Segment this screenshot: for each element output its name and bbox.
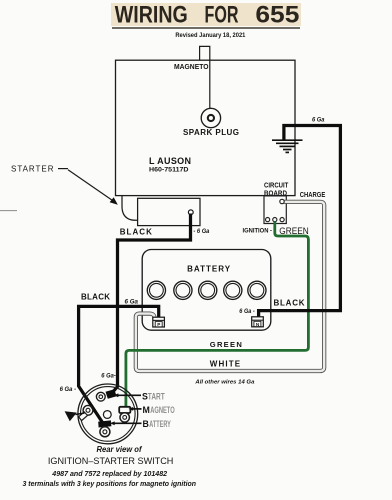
svg-text:IGNITION–STARTER SWITCH: IGNITION–STARTER SWITCH [48,455,173,466]
svg-text:All other wires 14 Ga: All other wires 14 Ga [194,379,255,385]
switch key shaft hole [103,411,111,419]
svg-text:TART: TART [148,391,165,401]
ignition switch inner ring [81,387,136,442]
left margin tick [0,210,17,212]
battery N terminal [252,317,264,327]
svg-text:BLACK: BLACK [120,227,152,236]
svg-text:4987 and 7572 replaced by 1014: 4987 and 7572 replaced by 101482 [51,469,167,478]
circuit board lower terminals [266,218,270,222]
svg-text:6 Ga: 6 Ga [125,299,139,306]
svg-text:6 Ga: 6 Ga [312,116,325,123]
title text WIRING FOR 655 [115,1,300,28]
svg-text:Rear view of: Rear view of [97,445,143,454]
svg-text:WHITE: WHITE [210,359,241,368]
ignition switch outer ring [78,384,138,444]
switch START terminal [96,389,116,401]
svg-text:BLACK: BLACK [274,299,305,308]
spark plug symbol [201,108,220,127]
switch MAGNETO terminal [119,407,130,422]
svg-text:IGNITION -: IGNITION - [243,227,273,234]
starter pointer line [58,168,68,170]
BATTERY label pointer [113,422,142,424]
svg-text:6 Ga -: 6 Ga - [60,386,77,393]
title highlight band [111,3,301,26]
circuit board charge terminal [280,199,284,203]
green ignition wire [126,222,309,409]
magneto terminal rect on box top [200,46,210,60]
MAGNETO label pointer [132,408,142,410]
svg-text:CHARGE: CHARGE [300,192,326,199]
svg-text:M: M [143,405,150,415]
svg-text:- 6 Ga: - 6 Ga [193,228,210,235]
engine box (LAUSON) [116,60,296,195]
wire black 6Ga: engine ground to battery N [259,126,341,319]
ground symbol (engine, top right) [272,140,303,152]
svg-text:STARTER: STARTER [11,164,54,173]
starter body [138,198,200,225]
battery cell caps [147,281,266,299]
svg-text:6 Ga-: 6 Ga- [101,373,116,380]
title underline [112,27,300,29]
switch mounting tab [83,405,93,415]
battery P terminal [153,317,165,327]
spark plug wire [209,60,211,108]
wire black 6Ga: battery P to switch BATTERY [79,306,159,424]
svg-text:WIRING: WIRING [115,1,188,28]
START label pointer [118,394,142,396]
wire black 6Ga: starter to switch START [112,214,191,394]
svg-text:H60-75117D: H60-75117D [149,167,189,174]
svg-text:BATTERY: BATTERY [187,265,231,274]
starter pointer arrowhead [110,197,118,205]
switch ground lead [76,413,85,415]
svg-text:655: 655 [255,1,299,28]
switch ground symbol [65,411,77,421]
svg-text:P: P [157,322,160,327]
battery box [142,250,271,331]
svg-text:Revised January 18, 2021: Revised January 18, 2021 [175,32,245,39]
svg-text:GREEN: GREEN [210,340,242,349]
switch BATTERY terminal [98,420,111,436]
svg-text:FOR: FOR [205,1,239,28]
svg-text:BLACK: BLACK [81,292,110,301]
white charge wire [136,202,324,371]
svg-text:6 Ga -: 6 Ga - [239,308,255,315]
svg-text:L AUSON: L AUSON [149,156,191,166]
starter terminal [188,210,193,215]
svg-text:ATTERY: ATTERY [149,419,171,429]
svg-text:BOARD: BOARD [264,191,287,198]
svg-text:B: B [143,419,149,429]
svg-text:3 terminals with 3 key positio: 3 terminals with 3 key positions for mag… [23,479,197,488]
svg-text:CIRCUIT: CIRCUIT [264,183,289,190]
circuit board box [264,196,286,224]
svg-text:SPARK PLUG: SPARK PLUG [183,128,239,137]
svg-text:MAGNETO: MAGNETO [174,64,209,71]
switch mounting tab flag [79,412,88,421]
svg-text:GREEN: GREEN [279,226,309,236]
svg-text:AGNETO: AGNETO [150,405,175,415]
starter left fairing [122,196,138,221]
